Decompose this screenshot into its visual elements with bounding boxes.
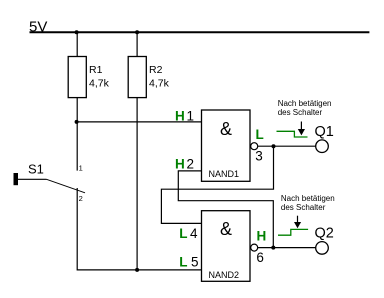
wire R1 to switch contact 1 [76, 98, 78, 171]
wire rail to R1 [76, 32, 78, 56]
svg-text:L: L [179, 226, 187, 241]
svg-text:des Schalter: des Schalter [278, 108, 323, 117]
node junction R1/H1 [75, 120, 79, 124]
svg-text:3: 3 [255, 149, 263, 164]
switch S1 button bar [14, 173, 19, 185]
wire rail to R2 [136, 32, 138, 56]
arrow switch action Q1 [300, 122, 302, 130]
svg-text:&: & [220, 119, 232, 139]
wire switch contact 2 to NAND2 pin 5 [77, 188, 201, 270]
svg-text:1: 1 [187, 108, 195, 123]
wire R2 down to bottom net [136, 98, 138, 270]
svg-text:H: H [257, 229, 267, 244]
svg-text:4: 4 [190, 226, 198, 241]
wire H1 input to NAND1 pin 1 [77, 121, 202, 123]
waveform L to H at Q2 [278, 229, 308, 235]
wire switch pole lead [18, 178, 47, 180]
svg-text:1: 1 [79, 164, 83, 173]
resistor R1 [68, 57, 86, 98]
svg-text:Q2: Q2 [315, 226, 334, 242]
svg-text:NAND1: NAND1 [209, 169, 240, 179]
wire NAND2 output to Q2 [258, 247, 316, 249]
svg-text:2: 2 [187, 156, 195, 171]
svg-text:4,7k: 4,7k [149, 77, 170, 89]
nand gate NAND1 body [202, 110, 251, 181]
svg-text:6: 6 [256, 250, 264, 265]
svg-text:5: 5 [191, 255, 199, 270]
wire NAND1 output to NAND2 pin 4 [161, 146, 273, 223]
inversion bubble NAND2 output [251, 244, 258, 251]
switch S1 blade [47, 179, 86, 193]
wire NAND2 output to NAND1 pin 2 [178, 171, 273, 248]
wire NAND1 output to Q1 [258, 145, 316, 147]
inversion bubble NAND1 output [251, 143, 258, 150]
svg-text:&: & [220, 219, 232, 239]
svg-text:2: 2 [79, 194, 83, 203]
svg-text:4,7k: 4,7k [89, 77, 110, 89]
svg-text:Nach betätigen: Nach betätigen [281, 194, 335, 203]
arrow switch action Q2 [297, 216, 299, 223]
svg-text:S1: S1 [28, 161, 44, 176]
wire 5V power rail [30, 31, 370, 33]
svg-text:L: L [256, 127, 264, 142]
resistor R2 [128, 57, 146, 98]
node junction Q1 feedback [272, 144, 276, 148]
node junction rail/R1 [75, 30, 79, 34]
svg-text:R1: R1 [89, 64, 103, 76]
svg-text:Nach betätigen: Nach betätigen [278, 99, 332, 108]
waveform H to L at Q1 [277, 131, 308, 137]
svg-text:H: H [175, 156, 185, 171]
node junction R2/L5 [135, 268, 139, 272]
svg-text:des Schalter: des Schalter [281, 203, 326, 212]
svg-text:Q1: Q1 [315, 124, 334, 140]
svg-text:L: L [179, 255, 187, 270]
svg-text:R2: R2 [149, 64, 163, 76]
nand gate NAND2 body [202, 211, 251, 282]
node junction rail/R2 [135, 30, 139, 34]
node junction Q2 feedback [271, 246, 275, 250]
svg-text:NAND2: NAND2 [209, 270, 240, 280]
svg-text:H: H [175, 108, 185, 123]
